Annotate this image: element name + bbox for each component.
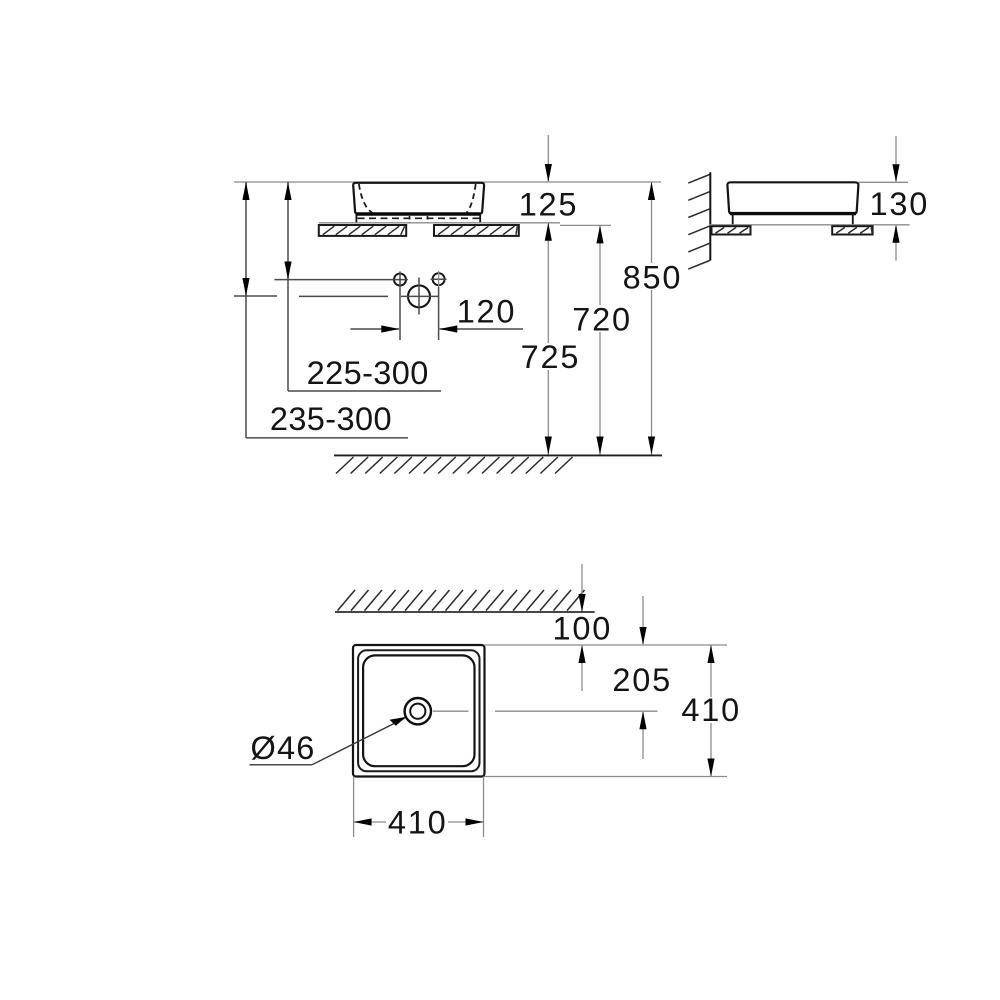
front view: counter hatched strip left	[319, 225, 406, 236]
faucet mounting hole left	[392, 272, 408, 288]
dimension diameter 46 label line	[250, 764, 313, 766]
plan view: bottom edge extension line	[485, 776, 728, 778]
plan view: drain center line	[433, 710, 658, 712]
plan view: basin outer square	[353, 645, 485, 777]
front view: right foot	[479, 214, 481, 223]
floor line	[334, 454, 662, 456]
plan view: wall hatching	[338, 590, 585, 611]
svg-text:235-300: 235-300	[270, 401, 392, 437]
front view: drain hidden lines	[409, 216, 411, 223]
dimension 235-300: tick at spout level	[234, 295, 277, 297]
dimension 100 arrows	[578, 564, 585, 691]
side view: right foot	[852, 214, 854, 225]
front view: counter line for 720	[560, 224, 611, 226]
dimension 120	[350, 325, 523, 332]
front view: inner bowl dashed curve left	[359, 184, 373, 213]
dimension 725 line	[545, 223, 552, 455]
faucet holes axis line	[275, 279, 394, 281]
front view: basin outline	[353, 183, 484, 214]
front view: counter surface line	[319, 222, 560, 224]
svg-text:120: 120	[457, 294, 517, 330]
extension line from right hole	[438, 287, 440, 340]
plan view: wall line	[335, 611, 595, 613]
dimension 410 bottom line	[354, 818, 484, 825]
side view: wall hatching	[688, 175, 709, 270]
side view: counter hatched strip left	[712, 226, 751, 234]
dimension 225-300: vertical line	[284, 182, 291, 391]
side view: counter hatched strip right	[832, 226, 872, 234]
svg-text:225-300: 225-300	[307, 355, 429, 391]
svg-text:410: 410	[388, 805, 448, 841]
front view: hidden base dashed line	[358, 217, 480, 219]
dimension 725 text	[519, 343, 579, 370]
svg-text:720: 720	[572, 302, 632, 338]
svg-text:130: 130	[869, 186, 929, 222]
plan view: drain inner circle	[410, 704, 425, 719]
plan view: top edge extension line	[485, 644, 728, 646]
dimension 125 arrow	[545, 135, 552, 182]
dimension 130 arrows	[892, 136, 899, 261]
dimension 410 right line	[707, 645, 714, 777]
side view: basin bottom thick edge	[730, 212, 856, 215]
side view: basin outline	[727, 182, 858, 213]
dimension 410 bottom text	[386, 809, 448, 835]
svg-text:410: 410	[681, 692, 741, 728]
dimension 225-300 label line	[288, 390, 441, 392]
floor hatching	[336, 457, 573, 474]
dimension 850 line	[648, 182, 655, 455]
dimension 410 right text	[681, 697, 741, 723]
side view: wall line	[709, 172, 711, 260]
dimension 720 line	[596, 225, 603, 454]
dimension 205 arrows	[639, 596, 646, 759]
svg-text:Ø46: Ø46	[250, 730, 315, 766]
side view: counter line	[709, 224, 909, 226]
side view: left foot	[732, 214, 734, 225]
front view: left foot	[355, 214, 357, 223]
svg-text:850: 850	[623, 260, 683, 296]
plan view: basin rim square	[358, 650, 479, 771]
dimension 720 text	[571, 305, 632, 332]
svg-text:205: 205	[612, 662, 672, 698]
plan view: basin bowl square	[363, 655, 474, 766]
faucet mounting hole right	[431, 271, 447, 287]
dimension 235-300 label line	[246, 437, 408, 439]
front view: basin bottom thick edge	[356, 212, 481, 215]
bottom 410: right extension line	[483, 777, 485, 838]
faucet body hole	[401, 278, 439, 315]
bottom 410: left extension line	[353, 777, 355, 838]
plan view: drain outer circle	[405, 698, 431, 724]
front view: rim level line	[234, 181, 661, 183]
side view: rim extension line	[859, 181, 908, 183]
svg-text:125: 125	[519, 186, 579, 222]
dimension 850 text	[622, 263, 681, 290]
spout axis line	[299, 295, 388, 297]
dimension 235-300: vertical line	[242, 182, 249, 438]
svg-text:100: 100	[552, 611, 612, 647]
front view: counter hatched strip right	[434, 225, 519, 236]
front view: inner bowl dashed curve right	[466, 184, 476, 213]
extension line from left hole	[399, 288, 401, 341]
svg-text:725: 725	[521, 339, 581, 375]
dimension diameter 46 leader	[312, 717, 406, 765]
